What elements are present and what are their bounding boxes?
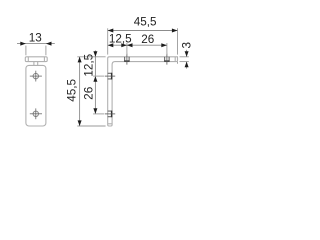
front view: hole H2 circle <box>33 111 38 116</box>
side view: hole L1 in vertical leg <box>105 73 116 80</box>
chain dimensions 12,5 / 26: extension lines <box>127 43 167 54</box>
dimension 45,5 vertical: bottom arrow <box>78 120 82 126</box>
dimension 45,5 horizontal: right arrow <box>172 29 178 33</box>
vertical chain: extension line to hole L2 centerline <box>93 113 104 115</box>
front view: hole H2 crosshair <box>30 108 42 119</box>
vertical dimension 26: top arrow at hole L1 (pointing up) <box>93 76 97 82</box>
side view: hole L2 in vertical leg <box>105 111 116 118</box>
front view: neck between flange and body <box>34 62 38 66</box>
svg-text:45,5: 45,5 <box>134 15 157 28</box>
vertical dimension 12,5: top arrow (outside, pointing down) <box>93 51 97 57</box>
svg-text:12,5: 12,5 <box>109 33 132 46</box>
side view: hole B2 in horizontal leg <box>164 54 169 65</box>
svg-text:3: 3 <box>181 42 194 49</box>
dimension 13: right arrow (outside, pointing left) <box>46 42 52 46</box>
svg-text:26: 26 <box>141 33 154 46</box>
dimension 45,5 vertical: extension lines <box>77 57 105 126</box>
chain dimensions vertical 12,5 / 26: dimension line <box>94 50 96 114</box>
svg-text:12,5: 12,5 <box>82 53 95 76</box>
dimension 45,5 horizontal: left arrow <box>108 29 114 33</box>
vertical dimension 26: bottom arrow at hole L2 (pointing down) <box>93 108 97 114</box>
dimension 26: right arrow <box>161 43 167 47</box>
svg-text:26: 26 <box>83 87 96 100</box>
front view: hole H1 crosshair <box>30 71 42 82</box>
side view: L-profile outline <box>108 57 178 126</box>
dimension 3: bottom arrow (outside, pointing up) <box>185 62 189 68</box>
side view: hole B1 in horizontal leg <box>124 54 129 65</box>
dimension 13: left arrow (outside, pointing right) <box>20 42 26 46</box>
dimension 45,5 vertical: dimension line <box>79 57 81 126</box>
dimension 45,5 horizontal: dimension line <box>108 30 178 32</box>
side view: end tangent line of vertical leg <box>108 123 112 125</box>
dimension 45,5 vertical: top arrow <box>78 57 82 63</box>
dimension 12,5: left arrow <box>108 43 114 47</box>
svg-text:13: 13 <box>29 32 42 45</box>
svg-text:45,5: 45,5 <box>66 79 79 102</box>
front view: hole H1 circle <box>33 73 38 78</box>
front view: top flange bar <box>25 57 47 62</box>
dimension 13: extension lines <box>26 46 46 56</box>
side view: end tangent line of horizontal leg <box>174 57 176 61</box>
dimension 12,5: right arrow <box>121 43 127 47</box>
front view: bracket plate body <box>26 65 46 126</box>
dimension 13: dimension line <box>17 43 55 45</box>
chain dimension line 12,5 / 26 <box>108 44 167 46</box>
dimension 45,5 horizontal: extension lines <box>108 28 178 64</box>
vertical chain: extension line to hole L1 centerline <box>93 75 104 77</box>
dimension 26: left arrow <box>127 43 133 47</box>
dimension 3: extension lines <box>180 57 189 62</box>
dimension 3: dimension line tails <box>186 50 188 69</box>
dimension 3: top arrow (outside, pointing down) <box>185 51 189 57</box>
